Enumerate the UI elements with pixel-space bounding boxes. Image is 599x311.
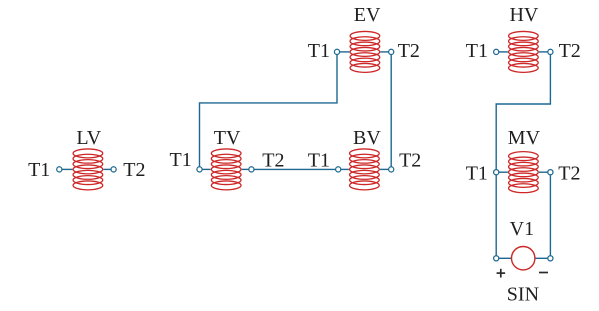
- wire EV winding to T2: [380, 51, 388, 53]
- wire BV T1 to winding: [341, 168, 349, 170]
- svg-text:T2: T2: [558, 162, 580, 184]
- svg-text:T2: T2: [399, 149, 421, 171]
- svg-text:T1: T1: [308, 149, 330, 171]
- svg-text:T1: T1: [466, 40, 488, 62]
- terminal T2 of MV: [548, 170, 553, 175]
- terminal T1 of LV: [57, 167, 62, 172]
- wire LV T1 to winding: [62, 168, 73, 170]
- svg-text:T2: T2: [262, 149, 284, 171]
- inductor TV winding: [211, 149, 241, 190]
- terminal T1 of HV: [494, 49, 499, 54]
- inductor BV winding: [350, 149, 380, 190]
- inductor LV winding: [73, 149, 103, 190]
- terminal T2 of TV: [249, 167, 254, 172]
- wire MV T1 to winding: [499, 171, 508, 173]
- terminal minus of V1: [548, 256, 553, 261]
- svg-text:T2: T2: [559, 40, 581, 62]
- terminal T2 of EV: [389, 49, 394, 54]
- wire BV T2 up to EV T2: [390, 55, 392, 167]
- wire TV T2 to BV T1: [254, 168, 336, 170]
- polarity plus sign: [497, 269, 506, 278]
- wire TV winding to T2: [242, 168, 249, 170]
- voltage source V1 circle: [512, 247, 535, 270]
- wire LV winding to T2: [103, 168, 111, 170]
- wire HV T2 down to MV T1: [496, 55, 550, 170]
- wire MV winding to T2: [539, 171, 548, 173]
- wire V1 source to minus terminal: [535, 257, 548, 259]
- terminal T2 of BV: [389, 167, 394, 172]
- inductor EV winding: [350, 31, 380, 72]
- svg-text:V1: V1: [510, 218, 534, 240]
- svg-text:T1: T1: [308, 40, 330, 62]
- terminal T1 of TV: [197, 167, 202, 172]
- terminal T1 of EV: [334, 49, 339, 54]
- terminal T1 of BV: [336, 167, 341, 172]
- wire BV winding to T2: [380, 168, 389, 170]
- wire HV T1 to winding: [499, 51, 508, 53]
- svg-text:T1: T1: [466, 162, 488, 184]
- wire MV T2 down to V1 minus: [549, 175, 551, 256]
- svg-text:T1: T1: [169, 149, 191, 171]
- svg-text:T2: T2: [398, 40, 420, 62]
- terminal T2 of LV: [111, 167, 116, 172]
- svg-text:EV: EV: [354, 4, 381, 26]
- svg-text:BV: BV: [353, 127, 381, 149]
- wire HV winding to T2: [539, 51, 548, 53]
- svg-text:T2: T2: [123, 159, 145, 181]
- inductor MV winding: [509, 152, 539, 193]
- wire MV T1 down to V1 plus: [495, 175, 497, 256]
- svg-text:TV: TV: [214, 127, 241, 149]
- svg-text:MV: MV: [508, 127, 541, 149]
- wire V1 plus terminal to source: [499, 257, 512, 259]
- svg-text:HV: HV: [509, 4, 538, 26]
- wire EV T1 to winding: [340, 51, 350, 53]
- svg-text:T1: T1: [28, 159, 50, 181]
- wire TV T1 to winding: [202, 168, 211, 170]
- terminal T2 of HV: [548, 49, 553, 54]
- polarity minus sign: [539, 272, 548, 274]
- svg-text:LV: LV: [76, 127, 101, 149]
- svg-text:SIN: SIN: [507, 283, 539, 305]
- terminal plus of V1: [494, 256, 499, 261]
- terminal T1 of MV: [494, 170, 499, 175]
- wire TV T1 up to EV T1: [200, 55, 338, 167]
- inductor HV winding: [509, 31, 539, 72]
